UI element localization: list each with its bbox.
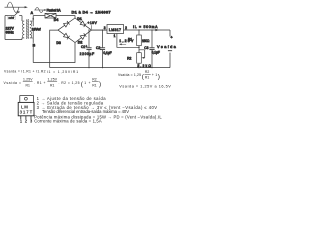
wire fuse to bridge top node bbox=[56, 16, 75, 18]
svg-text:Vsaída = I1.R1 + I1.R2: Vsaída = I1.R1 + I1.R2 bbox=[4, 70, 46, 74]
capacitor C2 wire upper bbox=[102, 30, 104, 47]
capacitor C3 plates bbox=[149, 47, 154, 49]
wire node B bottom run to bridge bottom node bbox=[33, 43, 75, 63]
svg-text:+ 1: + 1 bbox=[152, 73, 158, 77]
TO-220 legs bbox=[21, 116, 31, 119]
svg-text:R1: R1 bbox=[50, 84, 54, 88]
resistor R1 wire top bbox=[138, 30, 140, 35]
fraction bar 3 bbox=[92, 81, 99, 83]
svg-text:R2: R2 bbox=[127, 57, 131, 61]
svg-text:2200µF: 2200µF bbox=[80, 52, 95, 56]
svg-text:+19V: +19V bbox=[87, 21, 97, 25]
wire secondary top to node A bbox=[32, 16, 34, 38]
svg-text:B: B bbox=[33, 44, 36, 48]
svg-text:Vsaída =: Vsaída = bbox=[4, 81, 22, 85]
bridge bottom-left edge wire bbox=[58, 30, 75, 42]
ac mains sine waveform symbol bbox=[5, 2, 28, 12]
svg-text:D4: D4 bbox=[54, 18, 59, 22]
svg-text:Vsaída: Vsaída bbox=[157, 44, 177, 49]
diode D2 bbox=[80, 33, 86, 39]
junction adj/R1/R2 bbox=[138, 47, 139, 48]
svg-text:LM317: LM317 bbox=[109, 28, 121, 32]
svg-text:317T: 317T bbox=[20, 109, 33, 114]
svg-text:R2: R2 bbox=[92, 77, 96, 81]
wire bridge left node down to ground rail bbox=[50, 30, 58, 68]
svg-text:Vsaída = 1,25V a 16,5V: Vsaída = 1,25V a 16,5V bbox=[119, 84, 171, 88]
node A sine waveform symbol bbox=[34, 8, 47, 13]
svg-text:0,1µF: 0,1µF bbox=[152, 50, 160, 54]
svg-text:R1: R1 bbox=[128, 38, 132, 42]
capacitor C1 wire lower bbox=[88, 50, 90, 68]
transformer T1 core bbox=[26, 19, 28, 39]
svg-text:. R1 +: . R1 + bbox=[34, 81, 46, 85]
svg-text:A: A bbox=[31, 11, 34, 15]
svg-text:+: + bbox=[85, 44, 87, 48]
capacitor C2 wire lower bbox=[102, 50, 104, 68]
svg-text:18Vef: 18Vef bbox=[32, 28, 42, 32]
potentiometer R2 wiper bbox=[139, 50, 145, 59]
wire mains left side bbox=[4, 16, 6, 40]
svg-text:2: 2 bbox=[125, 26, 127, 30]
potentiometer R2 wire top bbox=[138, 47, 140, 52]
regulator U1 LM317 box bbox=[107, 25, 124, 34]
svg-text:1: 1 bbox=[114, 34, 116, 38]
adj wire from pin 1 bbox=[117, 34, 139, 48]
potentiometer R2 body bbox=[137, 53, 142, 64]
TO-220 body bbox=[18, 102, 34, 115]
output - terminal wire bbox=[169, 53, 171, 68]
IL arrowhead on output rail bbox=[155, 29, 158, 31]
diode D1 bbox=[80, 21, 86, 27]
fuse F1 bbox=[45, 13, 56, 18]
capacitor C1 plates bbox=[86, 47, 91, 49]
arrowhead up on secondary wire bbox=[32, 17, 34, 20]
svg-text:180Ω: 180Ω bbox=[142, 39, 150, 43]
svg-text:on/off: on/off bbox=[8, 18, 14, 20]
svg-text:Fusível 3A: Fusível 3A bbox=[47, 8, 62, 12]
svg-text:60Hz: 60Hz bbox=[6, 30, 14, 34]
svg-text:I1 = 1,25V/R1: I1 = 1,25V/R1 bbox=[47, 70, 79, 74]
svg-text:): ) bbox=[158, 73, 160, 80]
svg-text:3: 3 bbox=[104, 26, 106, 30]
formula right 1: Vsaida = 1,25 (R2/R1 + 1) bbox=[118, 70, 160, 80]
svg-text:C2: C2 bbox=[96, 46, 100, 50]
capacitor C1 wire upper bbox=[88, 30, 90, 47]
svg-text:C3: C3 bbox=[144, 46, 148, 50]
transformer T1 primary winding bbox=[22, 21, 24, 38]
svg-text:. R2 = 1,25: . R2 = 1,25 bbox=[59, 81, 80, 85]
svg-text:R1: R1 bbox=[145, 76, 149, 80]
svg-text:D3: D3 bbox=[56, 41, 61, 45]
svg-text:D2: D2 bbox=[78, 41, 83, 45]
fraction bar 2 bbox=[47, 80, 57, 82]
TO-220 package tab bbox=[20, 96, 34, 103]
svg-text:0,1µF: 0,1µF bbox=[103, 51, 111, 55]
fraction bar R2/R1 bbox=[145, 73, 151, 75]
svg-text:1,25V: 1,25V bbox=[23, 77, 33, 81]
capacitor C3 wire lower bbox=[151, 50, 153, 68]
svg-text:IL = 500mA: IL = 500mA bbox=[133, 25, 158, 29]
TO-220 mounting hole bbox=[25, 97, 28, 100]
node B label bbox=[32, 43, 36, 48]
resistor R1 body bbox=[137, 35, 142, 46]
wire mains bottom bbox=[5, 39, 22, 41]
svg-text:): ) bbox=[99, 81, 101, 88]
svg-text:R1: R1 bbox=[26, 84, 30, 88]
svg-text:Corrente máxima de saída = 1,5: Corrente máxima de saída = 1,5A bbox=[34, 119, 102, 124]
diode D4 bbox=[64, 21, 70, 27]
wire node A to fuse bbox=[33, 15, 45, 17]
output - terminal dash bbox=[168, 50, 172, 52]
junction dots on rails bbox=[88, 29, 152, 68]
svg-text:Vsaída = 1,25: Vsaída = 1,25 bbox=[118, 73, 141, 77]
wire bridge right node to regulator input bbox=[92, 29, 108, 31]
bridge bottom-right edge wire bbox=[75, 30, 92, 42]
formula line 2: Vsaida = (1,25V/R1).R1 + (1,25V/R1).R2 = 1,25(1 + R2/R1) bbox=[4, 77, 102, 87]
output rail wire bbox=[124, 29, 171, 31]
svg-text:R2: R2 bbox=[145, 70, 149, 74]
bridge top-right edge wire bbox=[75, 18, 92, 30]
resistor R1 wire bottom bbox=[138, 46, 140, 48]
18Vef label bbox=[31, 26, 41, 31]
svg-text:D1: D1 bbox=[77, 17, 82, 21]
capacitor C2 plates bbox=[100, 47, 105, 49]
wire mains right to primary bbox=[21, 16, 23, 21]
fraction bar 1 bbox=[23, 80, 33, 82]
switch (interruptor) bbox=[5, 11, 22, 16]
bridge top-left edge wire bbox=[58, 18, 75, 30]
node tick below +19V bbox=[90, 25, 92, 29]
switch tiny label bbox=[8, 16, 16, 20]
reference arrow left under 1,25V bbox=[120, 43, 126, 45]
ground rail bottom bbox=[50, 67, 170, 69]
transformer T1 secondary winding bbox=[30, 21, 33, 38]
svg-text:D1 à D4 → 1N4007: D1 à D4 → 1N4007 bbox=[72, 10, 111, 15]
svg-text:1 +: 1 + bbox=[84, 81, 90, 85]
R2 wire bottom bbox=[138, 63, 140, 67]
output + terminal wire bbox=[169, 30, 171, 37]
diode D3 bbox=[64, 33, 70, 39]
wire secondary bottom to node B down bbox=[32, 38, 34, 63]
svg-text:R1: R1 bbox=[92, 84, 96, 88]
svg-text:1,25V: 1,25V bbox=[48, 77, 58, 81]
capacitor C3 wire upper bbox=[151, 30, 153, 47]
